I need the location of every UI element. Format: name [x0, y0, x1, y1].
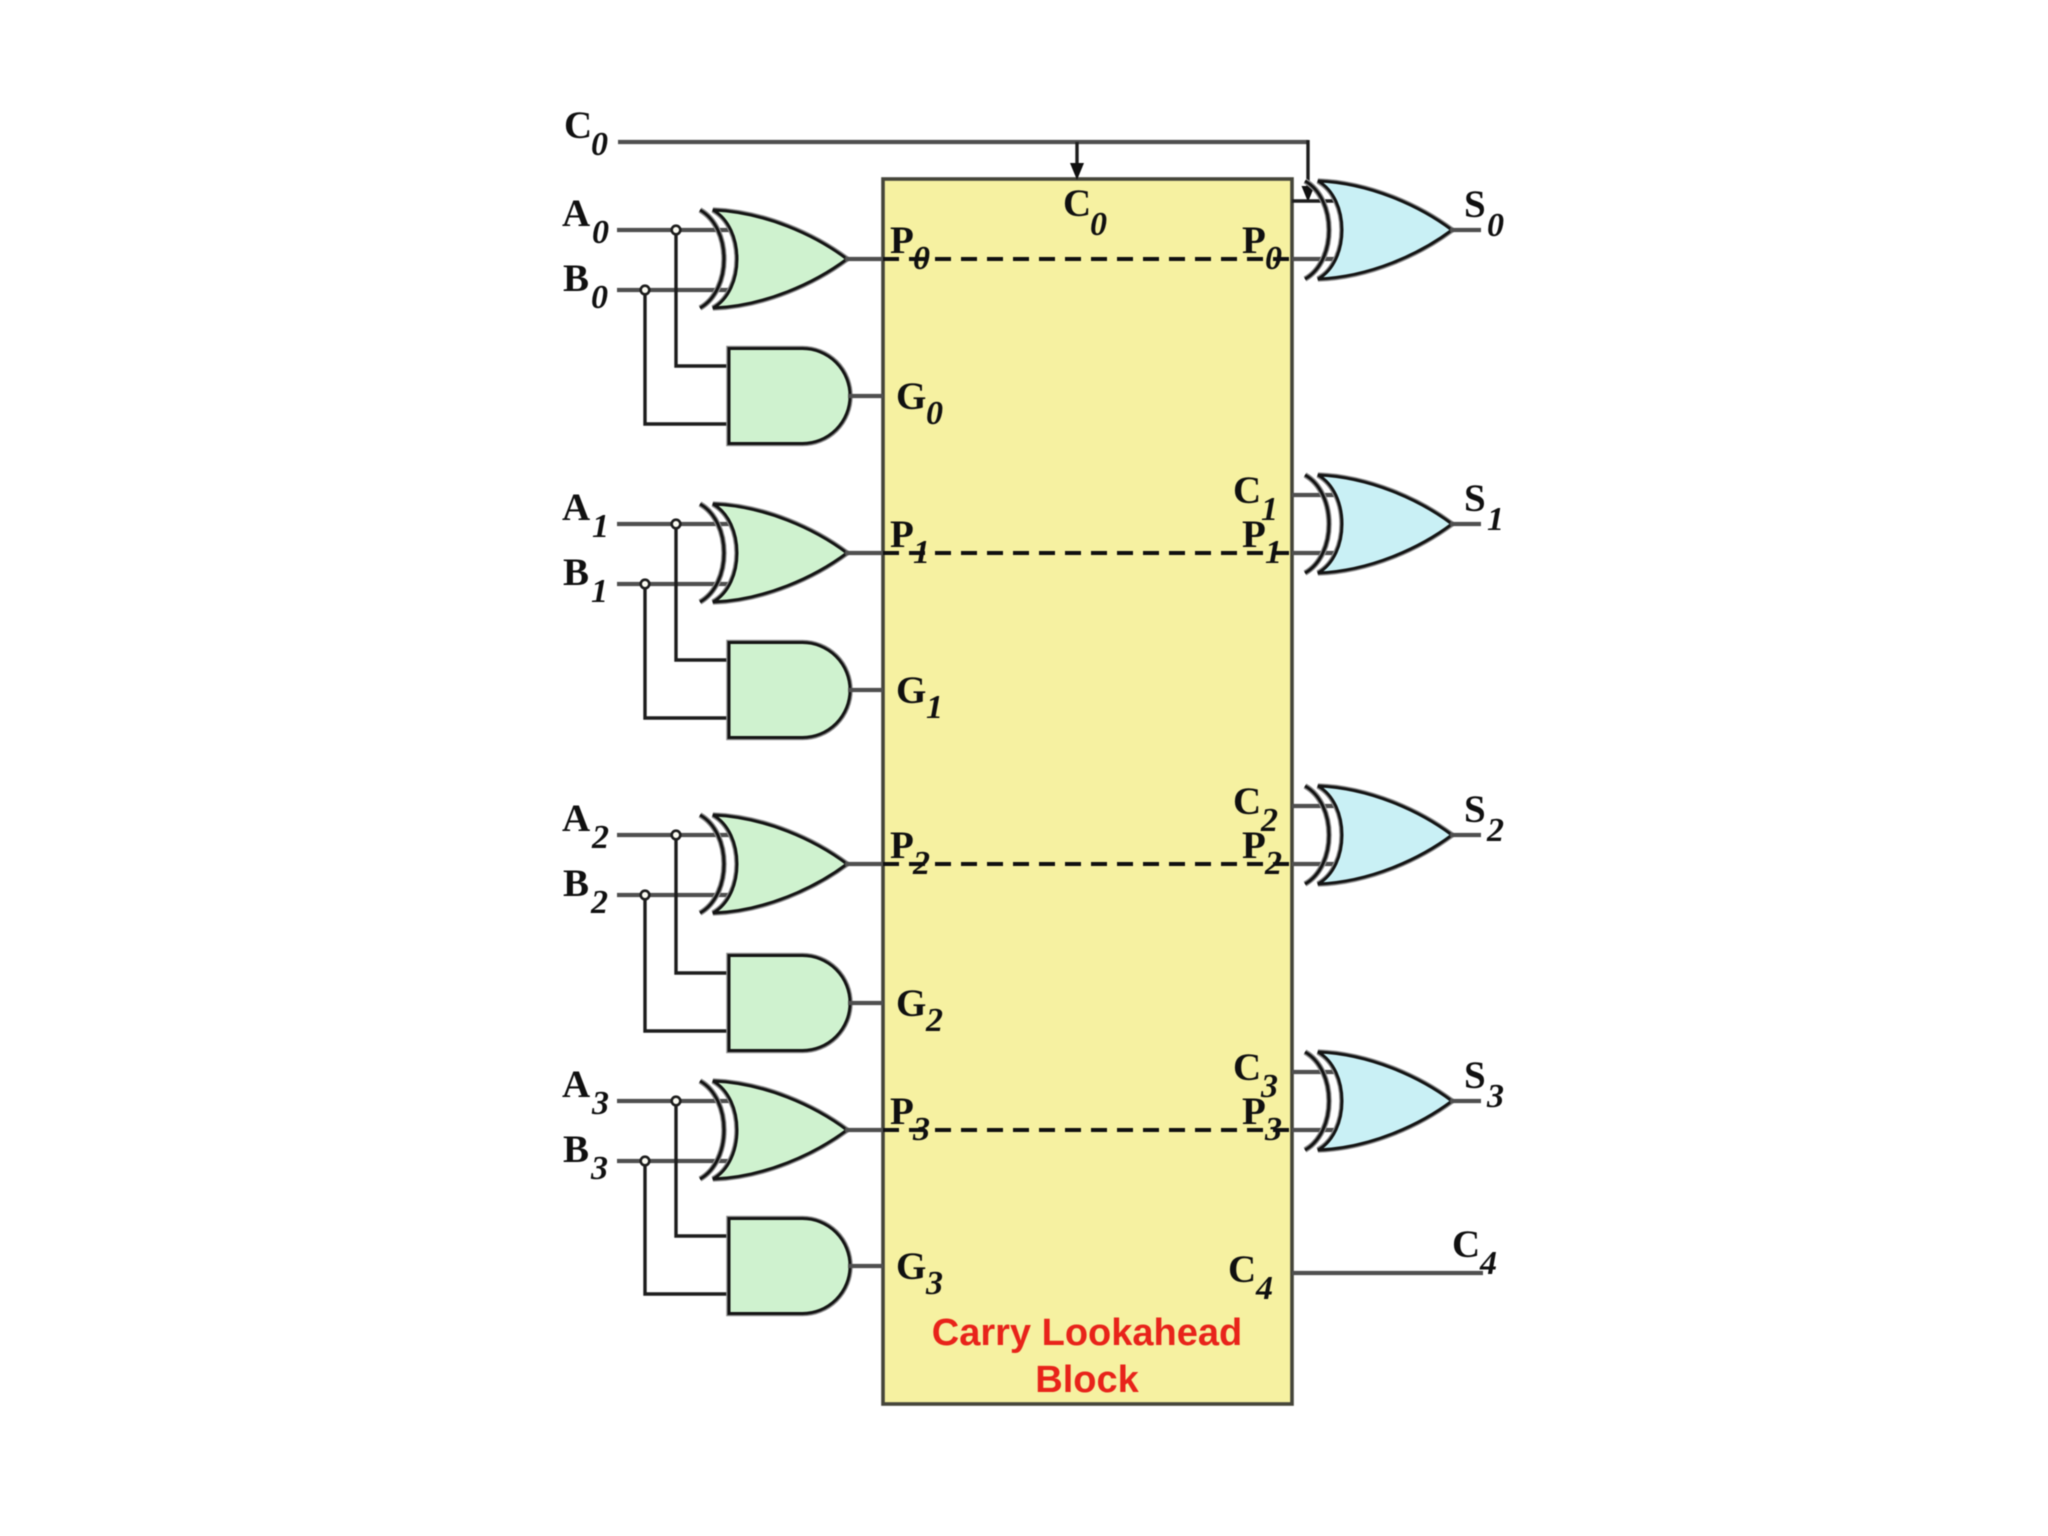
svg-text:1: 1 [1265, 534, 1282, 571]
svg-text:3: 3 [1264, 1111, 1282, 1148]
svg-text:C: C [564, 104, 592, 147]
svg-text:1: 1 [591, 573, 608, 610]
wire B0 input [617, 288, 737, 292]
svg-text:S: S [1464, 1054, 1486, 1097]
svg-text:0: 0 [926, 395, 943, 432]
wire C1 stub to S1 xor [1292, 493, 1347, 497]
svg-text:1: 1 [592, 508, 609, 545]
wire B1 input [617, 582, 737, 586]
wire C0 from label to right elbow [618, 140, 1308, 144]
wire B1 branch down to AND gate [645, 584, 729, 718]
carry lookahead block [883, 179, 1292, 1404]
wire XOR1 output to block (P1) [845, 551, 883, 555]
wire AND2 output to block (G2) [848, 1001, 883, 1005]
wire P1 dashed inside block [883, 551, 1292, 555]
svg-text:P: P [890, 513, 914, 556]
node junction on A3 wire [672, 1097, 681, 1106]
svg-text:0: 0 [592, 214, 609, 251]
and gate AND2 (A2 and B2 = G2) [729, 956, 850, 1051]
xor gate for sum S2 [1305, 786, 1452, 884]
svg-text:C: C [1233, 469, 1261, 512]
wire A3 branch down to AND gate [676, 1101, 729, 1236]
wire S3 output [1450, 1099, 1481, 1103]
wire AND3 output to block (G3) [848, 1264, 883, 1268]
svg-text:2: 2 [590, 884, 608, 921]
svg-text:Block: Block [1035, 1359, 1139, 1401]
svg-text:1: 1 [926, 689, 943, 726]
wire B2 branch down to AND gate [645, 895, 729, 1031]
svg-text:2: 2 [925, 1002, 943, 1039]
svg-text:Carry Lookahead: Carry Lookahead [932, 1312, 1242, 1354]
and gate AND3 (A3 and B3 = G3) [729, 1219, 850, 1314]
svg-text:2: 2 [1264, 845, 1282, 882]
wire P2 dashed inside block [883, 862, 1292, 866]
svg-text:A: A [562, 797, 590, 840]
wire A1 input [617, 522, 737, 526]
wire A0 input [617, 228, 737, 232]
svg-text:4: 4 [1479, 1245, 1497, 1282]
wire P3 dashed inside block [883, 1128, 1292, 1132]
wire C4 output [1292, 1271, 1483, 1275]
svg-text:C: C [1228, 1248, 1256, 1291]
wire A3 input [617, 1099, 737, 1103]
node junction on B1 wire [641, 580, 650, 589]
wire P2 stub to S2 xor [1292, 862, 1347, 866]
xor gate for sum S3 [1305, 1052, 1452, 1150]
svg-text:C: C [1063, 182, 1091, 225]
svg-text:0: 0 [1265, 240, 1282, 277]
svg-text:4: 4 [1255, 1270, 1273, 1307]
wire C3 stub to S3 xor [1292, 1070, 1347, 1074]
svg-text:S: S [1464, 477, 1486, 520]
svg-text:3: 3 [925, 1265, 943, 1302]
svg-text:P: P [890, 1090, 914, 1133]
svg-text:P: P [1242, 1090, 1266, 1133]
svg-text:A: A [562, 192, 590, 235]
xor gate for sum S1 [1305, 475, 1452, 573]
svg-text:G: G [896, 669, 926, 712]
wire AND1 output to block (G1) [848, 688, 883, 692]
svg-text:C: C [1452, 1223, 1480, 1266]
xor gate XOR2 (A2 xor B2 = P2) [700, 815, 847, 913]
svg-text:P: P [1242, 219, 1266, 262]
wire P0 stub to S0 xor [1292, 257, 1347, 261]
wire B2 input [617, 893, 737, 897]
node junction on A1 wire [672, 520, 681, 529]
wire P1 stub to S1 xor [1292, 551, 1347, 555]
svg-text:B: B [563, 1128, 589, 1171]
wire B0 branch down to AND gate [645, 290, 729, 424]
svg-text:C: C [1233, 1046, 1261, 1089]
wire C0 branch into block top [1075, 142, 1078, 165]
svg-text:B: B [563, 551, 589, 594]
svg-text:3: 3 [590, 1150, 608, 1187]
wire S2 output [1450, 833, 1481, 837]
svg-text:3: 3 [1486, 1078, 1504, 1115]
svg-text:A: A [562, 1063, 590, 1106]
xor gate XOR1 (A1 xor B1 = P1) [700, 504, 847, 602]
svg-text:P: P [890, 824, 914, 867]
svg-text:1: 1 [913, 534, 930, 571]
wire S1 output [1450, 522, 1481, 526]
svg-text:2: 2 [1486, 812, 1504, 849]
arrow C0 into S0 xor top input [1302, 186, 1315, 202]
svg-text:P: P [1242, 824, 1266, 867]
svg-text:P: P [1242, 513, 1266, 556]
wire B3 input [617, 1159, 737, 1163]
wire S0 output [1450, 228, 1481, 232]
svg-text:G: G [896, 1245, 926, 1288]
svg-text:B: B [563, 257, 589, 300]
svg-text:A: A [562, 486, 590, 529]
svg-text:0: 0 [1487, 207, 1504, 244]
wire A0 branch down to AND gate [676, 230, 729, 366]
svg-text:0: 0 [591, 279, 608, 316]
svg-text:1: 1 [1487, 501, 1504, 538]
wire A2 branch down to AND gate [676, 835, 729, 973]
svg-text:3: 3 [591, 1085, 609, 1122]
wire B3 branch down to AND gate [645, 1161, 729, 1294]
arrow C0 into carry lookahead block [1070, 163, 1084, 180]
wire AND0 output to block (G0) [848, 394, 883, 398]
wire P3 stub to S3 xor [1292, 1128, 1347, 1132]
svg-text:0: 0 [1090, 206, 1107, 243]
svg-text:3: 3 [912, 1111, 930, 1148]
svg-text:C: C [1233, 780, 1261, 823]
svg-text:S: S [1464, 183, 1486, 226]
wire XOR2 output to block (P2) [845, 862, 883, 866]
svg-text:0: 0 [591, 126, 608, 163]
and gate AND0 (A0 and B0 = G0) [729, 349, 850, 444]
svg-text:P: P [890, 219, 914, 262]
xor gate XOR0 (A0 xor B0 = P0) [700, 210, 847, 308]
wire XOR3 output to block (P3) [845, 1128, 883, 1132]
node junction on B0 wire [641, 286, 650, 295]
node junction on B3 wire [641, 1157, 650, 1166]
wire P0 dashed inside block [883, 257, 1292, 261]
svg-text:2: 2 [591, 819, 609, 856]
node junction on A0 wire [672, 226, 681, 235]
node junction on A2 wire [672, 831, 681, 840]
svg-text:0: 0 [913, 240, 930, 277]
and gate AND1 (A1 and B1 = G1) [729, 643, 850, 738]
svg-text:B: B [563, 862, 589, 905]
node junction on B2 wire [641, 891, 650, 900]
wire C2 stub to S2 xor [1292, 804, 1347, 808]
svg-text:S: S [1464, 788, 1486, 831]
wire XOR0 output to block (P0) [845, 257, 883, 261]
xor gate for sum S0 [1305, 181, 1452, 279]
wire C0 vertical drop to S0 xor input [1306, 140, 1309, 188]
svg-text:2: 2 [912, 845, 930, 882]
xor gate XOR3 (A3 xor B3 = P3) [700, 1081, 847, 1179]
svg-text:G: G [896, 375, 926, 418]
wire A2 input [617, 833, 737, 837]
wire A1 branch down to AND gate [676, 524, 729, 660]
svg-text:G: G [896, 982, 926, 1025]
wire S0 xor top input stub [1292, 199, 1347, 202]
